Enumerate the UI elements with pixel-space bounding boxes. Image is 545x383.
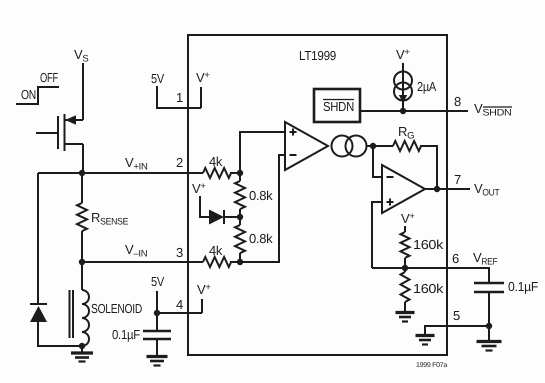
svg-text:4k: 4k [209, 154, 223, 169]
label VS [74, 47, 88, 65]
diode D1 flyback [30, 173, 47, 322]
transistor Q1 PMOS [36, 114, 83, 151]
power stub V+ current source [396, 47, 410, 72]
svg-text:160k: 160k [413, 281, 444, 296]
ON/OFF gate drive waveform [16, 70, 59, 104]
resistor R1 4k top [203, 154, 240, 178]
wire amp1 +input routing [240, 132, 285, 173]
op-amp U1 input gm stage [285, 122, 328, 170]
capacitor 0.1uF left [112, 313, 171, 355]
svg-text:7: 7 [454, 172, 461, 187]
current source I1 2uA [394, 72, 437, 112]
ground below lower 160k [396, 313, 415, 322]
power stub V+ reference divider [401, 211, 415, 232]
SHDN logic box [314, 89, 360, 122]
node pin4 junction dot [154, 310, 160, 316]
wire Q1 drain to node V+IN [82, 144, 84, 173]
resistor R4 4k bottom [203, 243, 240, 267]
wire diode anode to solenoid bottom [38, 322, 82, 346]
ground pin 5 internal [416, 336, 435, 345]
wire amp1 -input routing [240, 155, 285, 262]
resistor RSENSE [77, 173, 128, 262]
svg-text:5V: 5V [151, 274, 165, 289]
node mirror output junction [370, 143, 376, 149]
wire VREF row pin 6 [372, 268, 489, 282]
label V-IN and pin 3 [125, 242, 183, 260]
current mirror circles [332, 136, 367, 157]
diode D2 clamp [209, 210, 240, 225]
svg-text:LT1999: LT1999 [299, 48, 336, 63]
wire pin 5 external [447, 325, 489, 327]
resistor R2 0.8k top [235, 173, 273, 217]
wire mirror output [367, 145, 374, 147]
label V+IN and pin 2 [125, 155, 183, 173]
wire V+IN row to pin 2 [38, 172, 203, 174]
IC boundary box LT1999 [188, 35, 447, 355]
op-amp U2 output buffer [382, 165, 425, 213]
resistor R6 160k lower [401, 268, 444, 311]
svg-text:4k: 4k [209, 243, 223, 258]
svg-text:0.1µF: 0.1µF [112, 327, 140, 342]
node V+IN junction dot [79, 170, 85, 176]
svg-text:2µA: 2µA [417, 79, 437, 94]
node pin2 internal junction [237, 170, 243, 176]
wire amp2 +input routing [372, 202, 382, 268]
svg-text:1: 1 [176, 90, 183, 105]
svg-text:160k: 160k [413, 237, 444, 252]
wire amp2 -input routing [373, 146, 382, 177]
power stub V+ pin 4 [197, 282, 211, 313]
node pin8 junction dot [400, 108, 406, 114]
ground below left capacitor [147, 357, 168, 366]
svg-text:0.8k: 0.8k [249, 231, 273, 246]
label VSHDN [474, 101, 512, 119]
svg-text:6: 6 [452, 251, 459, 266]
svg-text:8: 8 [454, 94, 461, 109]
wire V-IN row to pin 3 [82, 261, 203, 263]
power stub V+ clamp diode [192, 181, 209, 217]
svg-text:5V: 5V [151, 71, 165, 86]
node pin7 junction dot [434, 186, 440, 192]
wire 5V to pin 1 [157, 86, 201, 108]
node pin3 internal junction [237, 259, 243, 265]
wire SHDN to pin 8 [360, 110, 468, 112]
svg-text:5: 5 [453, 308, 460, 323]
svg-text:OFF: OFF [40, 70, 58, 85]
svg-text:SHDN: SHDN [323, 99, 354, 114]
wire amp2 output to pin 7 [425, 188, 470, 190]
wire pin 5 internal to ground [425, 326, 447, 334]
resistor R3 0.8k bottom [235, 217, 273, 262]
node V-IN junction dot [79, 259, 85, 265]
svg-text:0.1µF: 0.1µF [508, 279, 538, 294]
svg-text:4: 4 [176, 297, 183, 312]
wire 5V to pin 4 [157, 291, 202, 313]
node solenoid bottom junction [79, 343, 85, 349]
inductor SOLENOID [70, 262, 143, 346]
svg-text:1999 F07a: 1999 F07a [416, 362, 447, 369]
node VREF junction dot [402, 265, 408, 271]
ground below solenoid [71, 346, 93, 362]
wire VS to Q1 source [82, 63, 84, 120]
svg-text:0.8k: 0.8k [249, 188, 273, 203]
resistor R5 160k upper [401, 232, 444, 268]
ground below right capacitor [477, 326, 502, 351]
svg-text:2: 2 [176, 155, 183, 170]
svg-text:3: 3 [176, 245, 183, 260]
svg-text:SOLENOID: SOLENOID [91, 301, 142, 316]
power stub V+ pin 1 [196, 70, 210, 108]
capacitor 0.1uF right [474, 279, 538, 326]
resistor RG feedback [373, 124, 437, 189]
node mid divider junction [237, 214, 243, 220]
svg-text:ON: ON [21, 87, 36, 102]
node pin5 external junction [486, 323, 492, 329]
